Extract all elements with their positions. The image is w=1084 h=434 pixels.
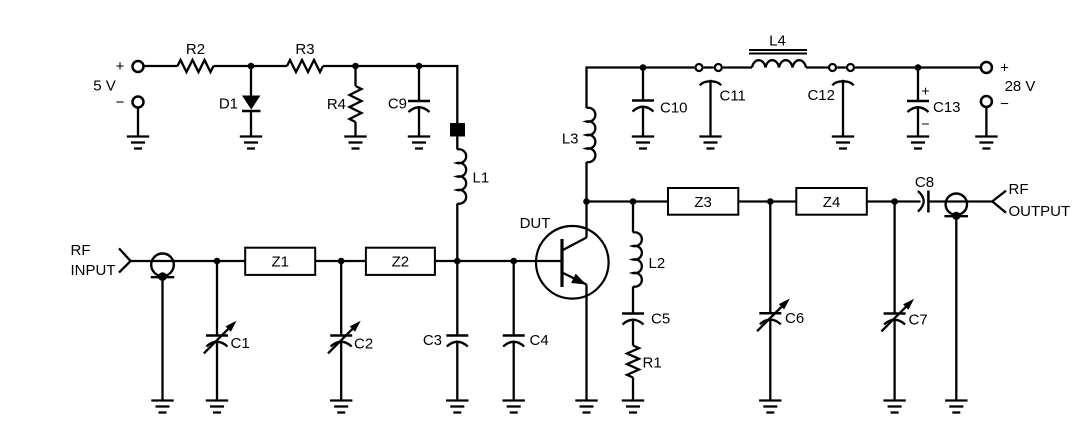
svg-text:INPUT: INPUT <box>71 262 116 279</box>
svg-text:C5: C5 <box>651 311 670 328</box>
svg-text:L2: L2 <box>649 255 666 272</box>
svg-text:28 V: 28 V <box>1005 78 1036 95</box>
svg-text:C6: C6 <box>785 310 804 327</box>
svg-text:R1: R1 <box>643 355 662 372</box>
svg-text:OUTPUT: OUTPUT <box>1009 203 1071 220</box>
svg-text:−: − <box>1000 96 1009 113</box>
svg-text:C13: C13 <box>933 99 961 116</box>
svg-text:L3: L3 <box>562 131 579 148</box>
svg-text:D1: D1 <box>219 96 238 113</box>
svg-text:RF: RF <box>71 242 91 259</box>
svg-text:C8: C8 <box>915 174 934 191</box>
svg-text:5 V: 5 V <box>93 78 116 95</box>
svg-text:Z3: Z3 <box>694 194 712 211</box>
svg-text:C2: C2 <box>354 336 373 353</box>
svg-text:L4: L4 <box>769 33 786 50</box>
svg-text:Z4: Z4 <box>823 194 841 211</box>
svg-text:+: + <box>116 58 125 75</box>
svg-text:C1: C1 <box>231 335 250 352</box>
svg-text:C3: C3 <box>423 332 442 349</box>
svg-text:C12: C12 <box>807 87 835 104</box>
svg-text:+: + <box>1000 60 1009 77</box>
svg-text:C10: C10 <box>660 100 688 117</box>
svg-text:C7: C7 <box>909 312 928 329</box>
svg-text:C9: C9 <box>388 96 407 113</box>
svg-text:R4: R4 <box>327 96 346 113</box>
svg-text:Z1: Z1 <box>271 254 289 271</box>
svg-text:R3: R3 <box>295 41 314 58</box>
svg-text:R2: R2 <box>186 41 205 58</box>
svg-text:C4: C4 <box>530 332 549 349</box>
svg-text:Z2: Z2 <box>392 254 410 271</box>
svg-text:+: + <box>921 83 929 99</box>
svg-text:RF: RF <box>1009 181 1029 198</box>
svg-text:L1: L1 <box>473 170 490 187</box>
svg-text:C11: C11 <box>720 88 746 105</box>
svg-text:DUT: DUT <box>520 215 551 232</box>
svg-text:−: − <box>116 94 125 111</box>
svg-text:−: − <box>921 116 929 132</box>
